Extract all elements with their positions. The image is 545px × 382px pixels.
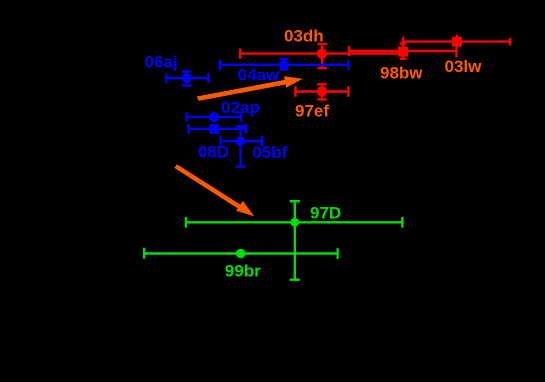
error bar 06aj horizontal xyxy=(166,73,208,83)
marker 05bf circle xyxy=(236,136,246,146)
error bar 03dh vertical xyxy=(317,44,326,68)
svg-text:06aj: 06aj xyxy=(145,53,178,72)
error bar 02ap horizontal xyxy=(187,112,242,121)
error bar 99br horizontal xyxy=(144,248,338,259)
marker 97D circle xyxy=(290,218,299,227)
arrow 2 xyxy=(174,164,254,216)
error bar 04aw horizontal xyxy=(220,60,349,70)
marker 97ef circle xyxy=(317,86,327,96)
error bar 08D horizontal xyxy=(188,124,245,133)
error bar 97ef vertical xyxy=(317,84,326,99)
svg-text:98bw: 98bw xyxy=(380,63,423,82)
svg-text:08D: 08D xyxy=(198,143,229,162)
error bar 06aj vertical xyxy=(182,71,191,85)
svg-text:03lw: 03lw xyxy=(445,57,483,76)
marker 03lw square xyxy=(452,37,462,47)
error bar 97D horizontal xyxy=(186,217,402,228)
svg-text:99br: 99br xyxy=(225,261,261,280)
error bar 03lw vertical xyxy=(456,35,458,49)
marker 02ap circle xyxy=(209,112,219,122)
marker 98bw square xyxy=(398,47,408,57)
marker 04aw circle xyxy=(279,60,289,70)
error bar 05bf horizontal xyxy=(221,135,262,146)
error bar 04aw vertical xyxy=(279,59,288,70)
svg-text:97D: 97D xyxy=(310,204,341,223)
error bar 03dh horizontal xyxy=(240,48,403,58)
marker 06aj circle xyxy=(182,73,192,83)
marker 99br circle xyxy=(236,249,246,259)
svg-text:04aw: 04aw xyxy=(238,65,280,84)
error bar 98bw horizontal xyxy=(349,45,456,57)
error bar 97D vertical xyxy=(290,201,300,280)
svg-text:02ap: 02ap xyxy=(221,98,260,117)
arrow 1 xyxy=(197,76,303,101)
marker 03dh circle xyxy=(317,48,327,58)
error bar 97ef horizontal xyxy=(295,86,348,97)
error bar 98bw vertical xyxy=(400,44,407,59)
marker 08D square xyxy=(209,124,219,134)
svg-text:03dh: 03dh xyxy=(284,27,324,46)
svg-text:97ef: 97ef xyxy=(295,101,329,120)
svg-text:05bf: 05bf xyxy=(252,143,287,162)
error bar 03lw horizontal xyxy=(403,37,510,47)
error bar 05bf vertical xyxy=(235,126,245,166)
